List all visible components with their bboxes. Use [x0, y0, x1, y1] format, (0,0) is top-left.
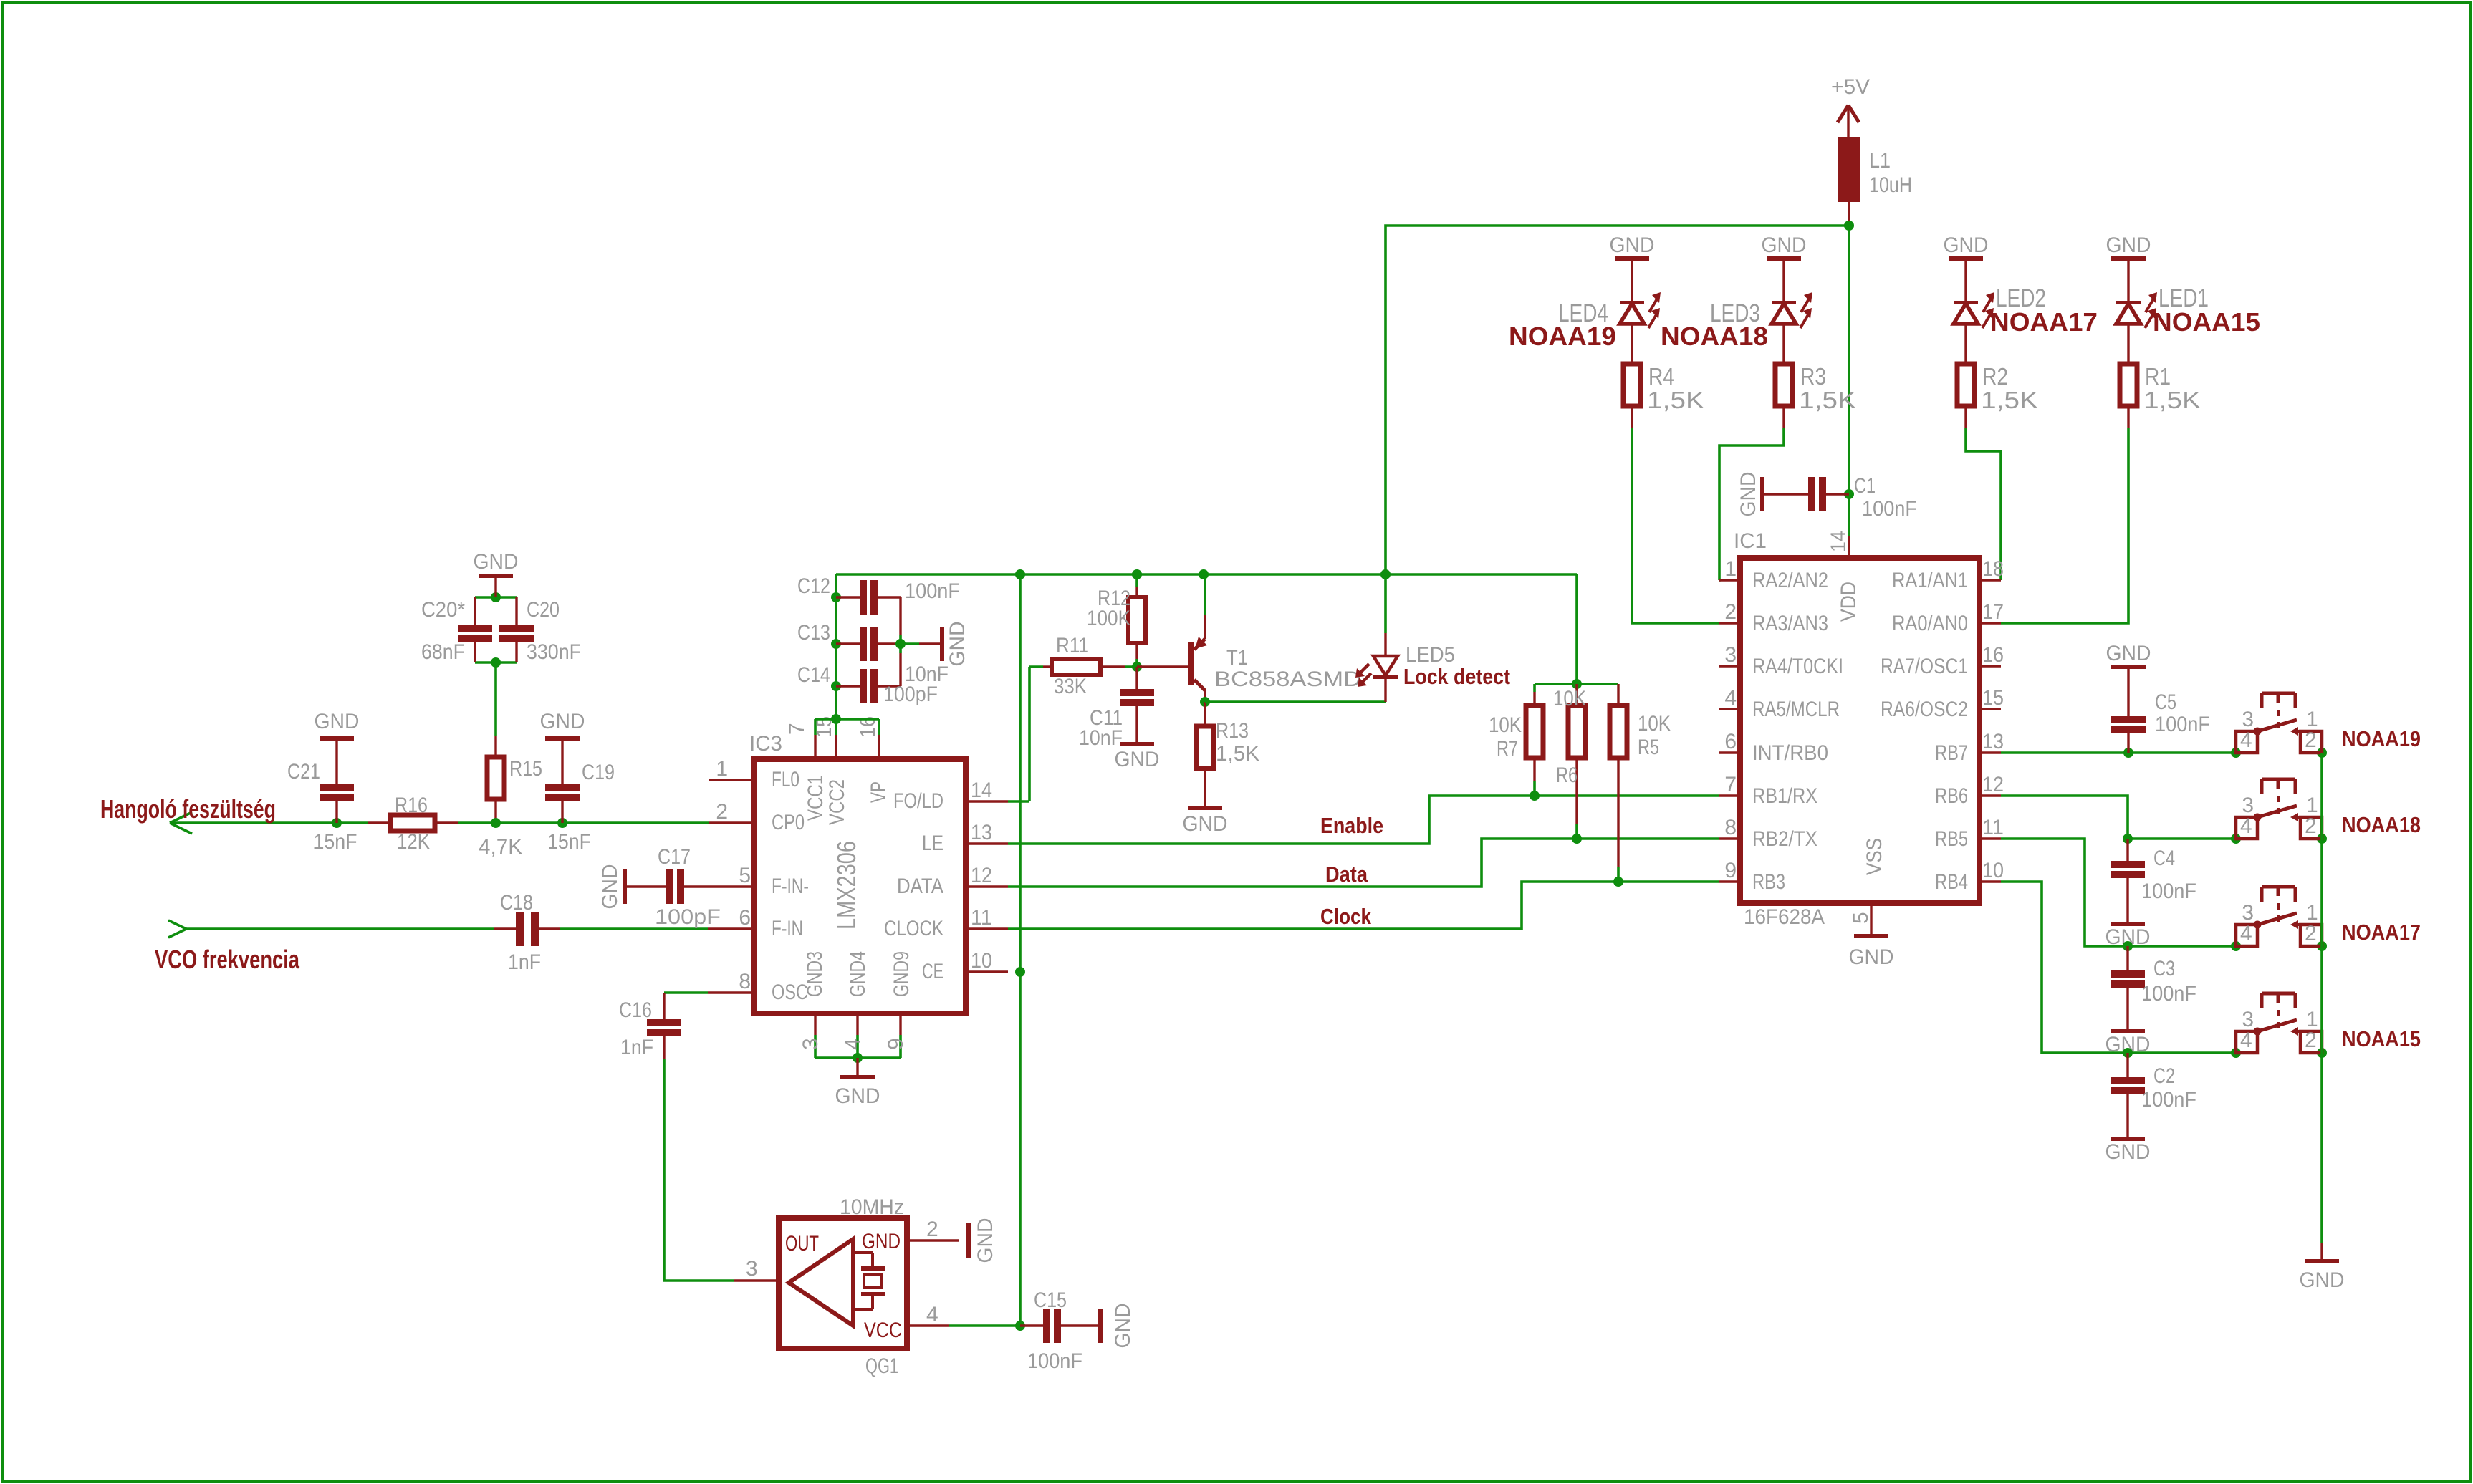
net VP top rail [836, 573, 1577, 576]
svg-text:10nF: 10nF [1079, 726, 1123, 750]
svg-text:9: 9 [884, 1038, 908, 1050]
svg-text:R1: R1 [2145, 363, 2171, 390]
resistor R13 [1204, 702, 1206, 726]
resistor R11 [1043, 665, 1052, 668]
svg-text:Data: Data [1325, 862, 1368, 887]
svg-text:GND: GND [2106, 642, 2151, 665]
wire C16 to QG1 pin3 [664, 1059, 734, 1281]
svg-text:RA0/AN0: RA0/AN0 [1892, 612, 1968, 635]
svg-text:C5: C5 [2155, 690, 2176, 714]
IC3 pin 14 FO/LD [966, 800, 1008, 802]
IC1 pin 13 RB7 [1979, 751, 2001, 753]
capacitor C15 [1020, 1324, 1043, 1326]
net RB7 NOAA19 row [2001, 751, 2236, 754]
svg-text:C18: C18 [500, 891, 533, 915]
svg-text:R13: R13 [1216, 719, 1249, 743]
svg-text:C21: C21 [287, 760, 320, 784]
svg-text:10K: 10K [1638, 712, 1671, 736]
net +5V feed to VP rail [1386, 226, 1849, 574]
switch S3 NOAA17 [2236, 925, 2257, 946]
svg-text:RA1/AN1: RA1/AN1 [1892, 569, 1968, 592]
svg-text:GND: GND [2105, 1140, 2151, 1164]
svg-text:IC1: IC1 [1734, 529, 1767, 553]
svg-text:2: 2 [1724, 600, 1737, 624]
ground C19 [545, 736, 580, 741]
svg-text:Lock detect: Lock detect [1403, 664, 1510, 689]
IC1 pin 10 RB4 [1979, 880, 2001, 882]
svg-text:NOAA15: NOAA15 [2342, 1026, 2421, 1051]
IC1 pin 5 VSS [1870, 903, 1872, 934]
ground C1 [1760, 477, 1764, 511]
svg-text:R5: R5 [1638, 736, 1659, 759]
capacitor C13 [836, 642, 860, 645]
transistor T1 BC858ASMD [1137, 665, 1188, 668]
svg-text:RA3/AN3: RA3/AN3 [1752, 612, 1828, 635]
svg-text:GND3: GND3 [803, 951, 827, 997]
node T1 base junction [1132, 662, 1142, 672]
svg-text:330nF: 330nF [527, 640, 581, 664]
svg-text:10: 10 [971, 949, 992, 973]
svg-text:13: 13 [1982, 730, 2004, 753]
wire VP rail down to pullups [1575, 574, 1578, 684]
wire VP vertical to CE and C15 [1019, 574, 1022, 1326]
svg-text:VDD: VDD [1837, 582, 1860, 622]
QG1 pin 2 GND [907, 1239, 959, 1241]
svg-text:C17: C17 [658, 845, 691, 869]
wire caps right bus [899, 597, 901, 635]
svg-text:VP: VP [867, 781, 890, 803]
svg-text:2: 2 [2305, 814, 2317, 838]
capacitor C20* [491, 592, 501, 602]
svg-text:R6: R6 [1556, 763, 1578, 787]
wire R2 to IC1 pin18 [1966, 428, 2001, 580]
net port arrow VCO [168, 920, 186, 929]
IC1 pin 7 RB1/RX [1719, 794, 1740, 796]
ground R13 [1188, 806, 1222, 810]
svg-text:L1: L1 [1869, 149, 1891, 173]
IC1 pin 16 RA7/OSC1 [1979, 665, 2001, 667]
QG1 crystal [853, 1251, 873, 1254]
capacitor C11 [1135, 667, 1138, 689]
ground C11 [1120, 742, 1154, 746]
svg-text:1,5K: 1,5K [1216, 742, 1259, 766]
svg-text:RB1/RX: RB1/RX [1752, 784, 1817, 808]
IC3 pin 2 CP0 [709, 821, 754, 824]
svg-text:2: 2 [2305, 1028, 2317, 1052]
svg-text:GND: GND [540, 710, 585, 733]
svg-text:100nF: 100nF [905, 579, 960, 603]
IC3 pin 9 [899, 1013, 901, 1035]
svg-text:C20*: C20* [421, 598, 465, 622]
IC1 pin 9 RB3 [1719, 880, 1740, 882]
svg-text:10: 10 [1982, 859, 2004, 882]
IC3 pin 8 OSC [708, 991, 754, 993]
svg-text:RA6/OSC2: RA6/OSC2 [1881, 698, 1968, 721]
svg-text:100pF: 100pF [655, 905, 721, 929]
svg-text:OUT: OUT [785, 1232, 819, 1256]
svg-text:4: 4 [926, 1303, 938, 1326]
IC1 pin 18 RA1/AN1 [1979, 579, 2001, 581]
svg-text:VCC1: VCC1 [804, 775, 827, 821]
svg-text:1: 1 [1724, 557, 1737, 581]
svg-text:GND: GND [1762, 233, 1807, 257]
svg-text:10K: 10K [1553, 687, 1586, 710]
svg-text:+5V: +5V [1831, 75, 1870, 99]
svg-text:CE: CE [922, 960, 943, 983]
svg-text:8: 8 [739, 970, 751, 993]
svg-text:100nF: 100nF [2141, 982, 2196, 1006]
svg-text:100K: 100K [1087, 607, 1130, 630]
resistor R1 [2120, 364, 2137, 406]
svg-text:GND: GND [1944, 233, 1989, 257]
net NOAA18 row [2128, 837, 2236, 840]
svg-text:3: 3 [1724, 643, 1737, 667]
svg-text:16F628A: 16F628A [1744, 905, 1825, 929]
LED LED2 [1964, 261, 1967, 301]
svg-text:R11: R11 [1056, 634, 1089, 657]
IC1 pin 11 RB5 [1979, 837, 2001, 839]
capacitor C12 [836, 596, 860, 598]
svg-text:NOAA19: NOAA19 [2342, 726, 2421, 751]
svg-text:8: 8 [1724, 816, 1737, 839]
svg-text:1nF: 1nF [508, 950, 541, 974]
svg-text:C1: C1 [1854, 474, 1876, 498]
svg-text:100nF: 100nF [2141, 880, 2196, 903]
svg-text:RB6: RB6 [1935, 784, 1968, 808]
svg-text:6: 6 [1724, 730, 1737, 753]
svg-text:Enable: Enable [1320, 813, 1383, 838]
capacitor C20 [515, 597, 517, 625]
svg-text:10MHz: 10MHz [840, 1195, 904, 1219]
svg-text:GND: GND [474, 550, 519, 574]
svg-text:15nF: 15nF [314, 830, 357, 854]
IC3 pin 13 LE [966, 842, 1008, 844]
net NOAA15 row [2128, 1051, 2236, 1054]
svg-text:CLOCK: CLOCK [884, 917, 943, 940]
svg-text:2: 2 [926, 1218, 938, 1241]
svg-text:12K: 12K [397, 830, 430, 854]
IC3 pin 12 DATA [966, 885, 1008, 887]
svg-text:3: 3 [799, 1038, 822, 1050]
capacitor C19 [557, 818, 567, 828]
svg-text:6: 6 [739, 906, 751, 930]
svg-text:10K: 10K [1489, 713, 1522, 737]
QG1 amp triangle [789, 1239, 853, 1326]
svg-text:4: 4 [2240, 1028, 2252, 1052]
svg-text:100nF: 100nF [2141, 1088, 2196, 1112]
svg-text:1,5K: 1,5K [1799, 387, 1856, 413]
svg-text:11: 11 [971, 906, 992, 930]
IC IC1 16F628A box [1740, 558, 1979, 903]
svg-text:QG1: QG1 [865, 1354, 898, 1378]
resistor R15 [494, 736, 496, 757]
ground C15 [1098, 1309, 1103, 1343]
svg-text:R7: R7 [1497, 737, 1518, 761]
svg-text:IC3: IC3 [749, 732, 782, 756]
svg-text:C19: C19 [582, 761, 615, 784]
svg-text:2: 2 [2305, 922, 2317, 945]
IC1 pin 8 RB2/TX [1719, 837, 1740, 839]
svg-text:7: 7 [785, 723, 809, 735]
IC1 pin 15 RA6/OSC2 [1979, 708, 2001, 710]
IC3 pin 3 [814, 1013, 816, 1035]
svg-text:GND: GND [1183, 812, 1228, 836]
svg-text:9: 9 [1724, 859, 1737, 882]
net VDD vertical [1848, 226, 1850, 536]
svg-text:17: 17 [1982, 600, 2004, 624]
svg-text:C16: C16 [619, 998, 652, 1022]
svg-text:GND4: GND4 [846, 951, 870, 997]
oscillator QG1 box [779, 1218, 907, 1349]
IC1 pin 14 VDD [1848, 536, 1850, 558]
svg-text:RA2/AN2: RA2/AN2 [1752, 569, 1828, 592]
svg-text:RB5: RB5 [1935, 827, 1968, 851]
svg-text:NOAA18: NOAA18 [1661, 322, 1768, 351]
IC3 pin 10 CE [966, 970, 1008, 973]
IC1 pin 17 RA0/AN0 [1979, 622, 2001, 624]
svg-text:GND9: GND9 [890, 951, 913, 997]
net Enable wire [1008, 796, 1719, 844]
svg-text:C4: C4 [2153, 847, 2175, 870]
IC1 pin 3 RA4/T0CKI [1719, 665, 1740, 667]
svg-text:100nF: 100nF [2155, 713, 2210, 736]
svg-text:4: 4 [2240, 728, 2252, 752]
net RB4 to NOAA15 row [2001, 882, 2128, 1053]
svg-text:GND: GND [835, 1084, 880, 1108]
svg-text:3: 3 [746, 1257, 758, 1281]
svg-text:12: 12 [1982, 773, 2004, 796]
svg-text:2: 2 [716, 800, 728, 824]
svg-text:4: 4 [2240, 814, 2252, 838]
ground switches common [2320, 1243, 2323, 1259]
ground IC3 pins 3 4 9 [856, 1058, 858, 1075]
svg-text:5: 5 [739, 864, 751, 887]
svg-text:RA5/MCLR: RA5/MCLR [1752, 698, 1840, 721]
svg-text:16: 16 [1982, 643, 2004, 667]
resistor R16 [368, 821, 390, 824]
LED LED5 Lock detect [1384, 574, 1387, 633]
svg-text:FO/LD: FO/LD [893, 789, 943, 813]
svg-text:1: 1 [716, 757, 728, 781]
svg-text:BC858ASMD: BC858ASMD [1214, 668, 1361, 691]
svg-text:NOAA19: NOAA19 [1509, 322, 1616, 351]
svg-text:5: 5 [1849, 912, 1873, 924]
svg-text:RA4/T0CKI: RA4/T0CKI [1752, 655, 1843, 678]
inductor L1 [1838, 137, 1860, 202]
LED LED1 [2127, 261, 2129, 301]
svg-text:NOAA17: NOAA17 [1990, 307, 2098, 337]
IC1 pin 6 INT/RB0 [1719, 751, 1740, 753]
svg-text:C14: C14 [797, 663, 830, 687]
svg-text:14: 14 [971, 779, 992, 802]
svg-text:GND: GND [1111, 1304, 1135, 1349]
ground VSS [1854, 934, 1888, 938]
svg-text:C15: C15 [1034, 1288, 1067, 1312]
wire pullup top rail [1535, 683, 1618, 685]
ground C20 [494, 578, 496, 597]
svg-text:RB4: RB4 [1935, 870, 1968, 894]
svg-text:NOAA17: NOAA17 [2342, 920, 2421, 945]
svg-text:RB7: RB7 [1935, 741, 1968, 765]
svg-text:F-IN-: F-IN- [772, 874, 809, 898]
resistor R3 [1775, 364, 1792, 406]
wire pins 7 15 16 top rail [815, 718, 879, 721]
IC IC3 LMX2306 box [754, 759, 966, 1013]
switch S4 NOAA15 [2236, 1031, 2257, 1053]
ground QG1 pin2 [966, 1223, 971, 1258]
svg-text:1,5K: 1,5K [1981, 387, 2038, 413]
svg-text:RB2/TX: RB2/TX [1752, 827, 1817, 851]
svg-text:4,7K: 4,7K [479, 835, 522, 859]
svg-text:NOAA18: NOAA18 [2342, 812, 2421, 837]
resistor R4 [1623, 364, 1641, 406]
capacitor C21 [332, 818, 342, 828]
svg-text:VCO frekvencia: VCO frekvencia [155, 945, 300, 974]
svg-text:100pF: 100pF [883, 683, 938, 706]
svg-text:100nF: 100nF [1862, 497, 1917, 521]
svg-text:R3: R3 [1800, 363, 1826, 390]
svg-text:4: 4 [1724, 686, 1737, 710]
switch S2 NOAA18 [2236, 817, 2257, 839]
svg-text:Clock: Clock [1320, 904, 1372, 929]
svg-text:4: 4 [2240, 922, 2252, 945]
node L1 output junction [1844, 221, 1854, 231]
svg-text:18: 18 [1982, 557, 2004, 581]
IC3 pin 6 F-IN [708, 927, 754, 930]
svg-text:1,5K: 1,5K [1647, 387, 1704, 413]
svg-text:T1: T1 [1226, 646, 1248, 670]
net RB5 stub wire [2001, 839, 2128, 946]
svg-text:C20: C20 [527, 598, 560, 622]
svg-text:VSS: VSS [1863, 838, 1886, 875]
QG1 pin 3 OUT [734, 1279, 779, 1281]
svg-text:68nF: 68nF [421, 640, 465, 664]
svg-text:GND: GND [1737, 472, 1760, 517]
svg-text:C12: C12 [797, 574, 830, 598]
net switches common vertical [2320, 753, 2323, 1243]
IC3 pin 4 [856, 1013, 858, 1035]
resistor R7 [1533, 684, 1536, 692]
svg-text:7: 7 [1724, 773, 1737, 796]
capacitor C18 [494, 927, 516, 930]
svg-text:R16: R16 [395, 794, 428, 817]
svg-text:C13: C13 [797, 621, 830, 645]
svg-text:1,5K: 1,5K [2143, 387, 2201, 413]
resistor R5 [1617, 684, 1619, 705]
net Clock wire [1008, 882, 1719, 929]
LED LED3 [1782, 261, 1785, 301]
resistor R12 [1135, 574, 1138, 587]
svg-text:GND: GND [862, 1230, 901, 1253]
capacitor C4 [2126, 839, 2128, 861]
capacitor C14 [836, 685, 860, 687]
svg-text:C3: C3 [2153, 957, 2175, 980]
svg-text:DATA: DATA [897, 874, 943, 898]
svg-text:4: 4 [841, 1038, 865, 1050]
svg-text:GND: GND [314, 710, 360, 733]
IC3 pin 16 [878, 735, 880, 759]
wire IC3 bottom gnd bus pins 3 4 9 [815, 1056, 901, 1059]
svg-text:LE: LE [922, 832, 943, 855]
svg-text:Hangoló feszültség: Hangoló feszültség [100, 794, 276, 824]
ground C21 [320, 736, 354, 741]
svg-text:11: 11 [1982, 816, 2004, 839]
svg-text:VCC: VCC [864, 1319, 902, 1342]
svg-text:GND: GND [1849, 945, 1894, 969]
svg-text:15: 15 [1982, 686, 2004, 710]
IC1 pin 12 RB6 [1979, 794, 2001, 796]
wire VP rail vertical x1167 [835, 574, 837, 719]
svg-text:GND: GND [946, 622, 969, 667]
IC3 pin 15 [835, 735, 837, 759]
svg-text:10uH: 10uH [1869, 173, 1912, 197]
svg-text:12: 12 [971, 864, 992, 887]
svg-text:NOAA15: NOAA15 [2153, 307, 2260, 337]
svg-text:100nF: 100nF [1027, 1349, 1082, 1373]
IC3 pin 7 [814, 735, 816, 759]
wire lock detect horizontal [1205, 700, 1386, 703]
net port arrow Hangolo [170, 812, 192, 823]
net VCO frekvencia wire [186, 927, 494, 930]
svg-text:RA7/OSC1: RA7/OSC1 [1881, 655, 1968, 678]
IC1 pin 4 RA5/MCLR [1719, 708, 1740, 710]
svg-text:C2: C2 [2153, 1064, 2175, 1088]
wire FO/LD to R11 [1008, 800, 1029, 803]
resistor R2 [1957, 364, 1974, 406]
net Hangolo feszultseg wire [170, 821, 368, 824]
svg-text:GND: GND [598, 864, 622, 910]
svg-text:INT/RB0: INT/RB0 [1752, 741, 1828, 765]
svg-text:GND: GND [1610, 233, 1655, 257]
LED LED4 [1631, 261, 1633, 301]
IC3 pin 1 FL0 [709, 779, 754, 781]
svg-text:FL0: FL0 [772, 768, 799, 791]
svg-text:13: 13 [971, 821, 992, 844]
svg-text:GND: GND [974, 1218, 997, 1263]
svg-text:14: 14 [1827, 531, 1850, 552]
svg-text:15nF: 15nF [547, 830, 591, 854]
QG1 pin 4 VCC [907, 1324, 949, 1326]
svg-text:RB3: RB3 [1752, 870, 1785, 894]
net RB6 to NOAA18 row [2001, 796, 2128, 839]
capacitor C3 [2126, 946, 2128, 970]
net NOAA17 row [2128, 945, 2236, 948]
svg-text:R15: R15 [509, 757, 542, 781]
capacitor C17 [623, 869, 627, 904]
svg-text:CP0: CP0 [772, 811, 805, 834]
IC1 pin 1 RA2/AN2 [1719, 579, 1740, 581]
svg-text:VCC2: VCC2 [825, 779, 849, 825]
svg-text:R2: R2 [1982, 363, 2008, 390]
node T1 collector junction [1200, 697, 1210, 707]
switch S1 NOAA19 [2236, 731, 2257, 753]
svg-text:GND: GND [1115, 748, 1160, 771]
svg-text:GND: GND [2300, 1268, 2345, 1292]
svg-text:1nF: 1nF [620, 1036, 653, 1059]
svg-text:GND: GND [2106, 233, 2151, 257]
svg-text:F-IN: F-IN [772, 917, 803, 940]
IC1 pin 2 RA3/AN3 [1719, 622, 1740, 624]
svg-text:LMX2306: LMX2306 [832, 841, 861, 930]
net Data wire [1008, 839, 1719, 887]
svg-text:R4: R4 [1648, 363, 1674, 390]
IC3 pin 11 CLOCK [966, 927, 1008, 930]
wire R4 to IC1 pin2 [1632, 428, 1719, 623]
resistor R6 [1575, 684, 1578, 705]
svg-text:33K: 33K [1054, 675, 1087, 698]
wire R1 to IC1 pin17 [2001, 428, 2128, 623]
capacitor C2 [2126, 1053, 2128, 1077]
